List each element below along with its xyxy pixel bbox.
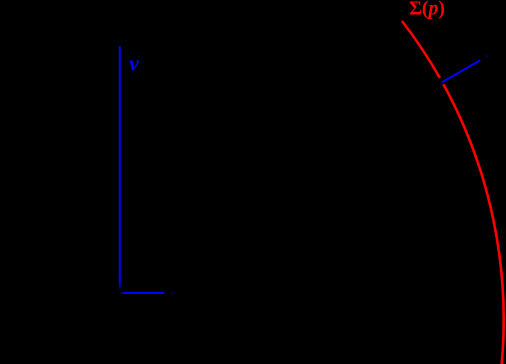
svg-text:v: v [129,50,139,75]
svg-text:Σ(p): Σ(p) [409,0,445,20]
